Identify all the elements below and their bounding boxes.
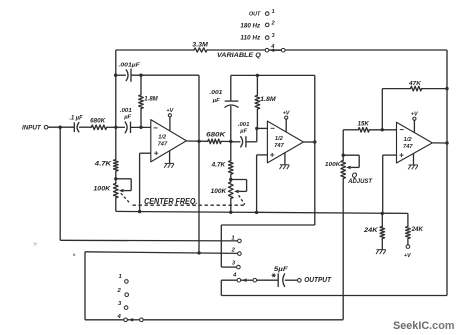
svg-text:180 Hz: 180 Hz xyxy=(240,24,260,30)
svg-text:.001: .001 xyxy=(209,90,222,96)
svg-text:+V: +V xyxy=(283,110,290,116)
svg-text:100K: 100K xyxy=(211,188,227,195)
svg-text:110 Hz: 110 Hz xyxy=(240,35,260,41)
svg-text:SeekIC.com: SeekIC.com xyxy=(393,320,455,332)
svg-text:680K: 680K xyxy=(206,131,225,138)
svg-text:.001: .001 xyxy=(238,122,250,128)
svg-text:2: 2 xyxy=(271,20,275,26)
svg-text:CENTER FREQ.: CENTER FREQ. xyxy=(144,197,197,206)
svg-text:24K: 24K xyxy=(411,226,424,233)
svg-text:ADJUST: ADJUST xyxy=(347,178,373,185)
svg-text:OUT: OUT xyxy=(249,11,261,17)
svg-text:µF: µF xyxy=(212,98,220,104)
svg-text:47K: 47K xyxy=(408,81,422,87)
svg-text:24K: 24K xyxy=(363,227,378,234)
svg-text:1: 1 xyxy=(272,9,275,15)
svg-text:1.8M: 1.8M xyxy=(144,95,158,102)
svg-text:1/2: 1/2 xyxy=(404,137,413,143)
svg-text:1/2: 1/2 xyxy=(275,136,284,142)
svg-text:4: 4 xyxy=(232,273,237,279)
svg-text:1: 1 xyxy=(231,235,234,241)
svg-text:2: 2 xyxy=(117,288,122,294)
svg-text:OUTPUT: OUTPUT xyxy=(304,277,331,284)
svg-text:INPUT: INPUT xyxy=(22,124,42,131)
svg-text:680K: 680K xyxy=(90,117,106,124)
svg-text:747: 747 xyxy=(403,144,413,150)
svg-text:4: 4 xyxy=(117,314,122,320)
svg-text:1: 1 xyxy=(119,274,122,280)
svg-text:4.7K: 4.7K xyxy=(94,161,112,168)
svg-text:4.7K: 4.7K xyxy=(211,162,226,169)
svg-text:100K: 100K xyxy=(325,162,341,168)
svg-text:.1 µF: .1 µF xyxy=(69,116,83,122)
svg-text:+V: +V xyxy=(404,253,411,259)
svg-text:VARIABLE Q: VARIABLE Q xyxy=(217,52,262,59)
svg-text:3: 3 xyxy=(272,33,275,39)
svg-text:15K: 15K xyxy=(358,121,370,127)
svg-text:.001µF: .001µF xyxy=(119,62,141,68)
svg-text:2: 2 xyxy=(231,248,236,254)
svg-text:100K: 100K xyxy=(93,185,110,192)
svg-text:1.8M: 1.8M xyxy=(260,96,277,103)
svg-text:747: 747 xyxy=(158,142,168,148)
svg-text:.001: .001 xyxy=(120,108,132,114)
svg-text:1/2: 1/2 xyxy=(158,135,167,141)
svg-text:3.3M: 3.3M xyxy=(192,42,209,49)
svg-text:5µF: 5µF xyxy=(274,266,288,273)
svg-text:+V: +V xyxy=(166,108,173,114)
svg-text:µF: µF xyxy=(239,129,247,135)
svg-text:µF: µF xyxy=(123,115,131,121)
svg-text:747: 747 xyxy=(274,143,284,149)
svg-text:+V: +V xyxy=(411,112,418,118)
